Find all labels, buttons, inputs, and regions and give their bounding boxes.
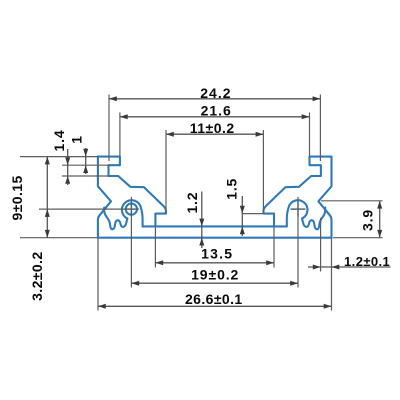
- svg-text:9±0.15: 9±0.15: [9, 175, 25, 220]
- svg-text:1.4: 1.4: [51, 130, 67, 152]
- svg-text:3.2±0.2: 3.2±0.2: [29, 251, 45, 300]
- svg-text:19±0.2: 19±0.2: [191, 266, 239, 282]
- svg-text:1.5: 1.5: [224, 178, 240, 200]
- svg-text:3.9: 3.9: [360, 209, 376, 231]
- svg-text:1: 1: [69, 135, 85, 144]
- svg-text:21.6: 21.6: [201, 103, 232, 119]
- svg-text:1.2: 1.2: [184, 192, 200, 214]
- svg-text:13.5: 13.5: [201, 245, 233, 261]
- svg-text:1.2±0.1: 1.2±0.1: [344, 254, 390, 269]
- svg-text:11±0.2: 11±0.2: [190, 120, 235, 136]
- svg-text:26.6±0.1: 26.6±0.1: [185, 291, 243, 307]
- svg-text:24.2: 24.2: [200, 85, 231, 101]
